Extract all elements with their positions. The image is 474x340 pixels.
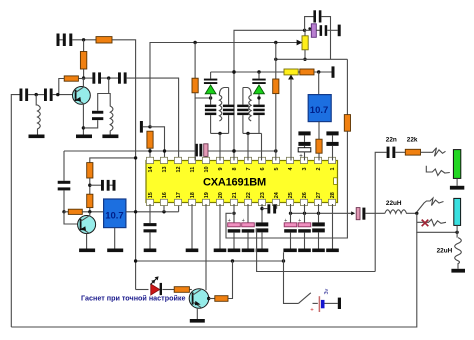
ground bbox=[242, 249, 255, 253]
wire osc top bbox=[150, 43, 301, 127]
capacitor C4 bbox=[84, 77, 93, 79]
terminal T5 bbox=[338, 298, 341, 309]
wire bbox=[72, 39, 96, 41]
ground bbox=[107, 249, 123, 253]
resistor R10 bbox=[344, 115, 350, 132]
svg-text:11: 11 bbox=[190, 167, 196, 173]
IC U1 notch bbox=[334, 178, 338, 185]
svg-text:+: + bbox=[299, 154, 303, 160]
ground bbox=[144, 249, 157, 253]
unit2 frame bbox=[243, 132, 262, 134]
inductor L6 bbox=[455, 238, 462, 269]
wire R5 column pin5 bbox=[275, 43, 277, 80]
varicap diode VD2 bbox=[254, 85, 265, 94]
transistor VT2 bbox=[64, 212, 78, 224]
ground bbox=[228, 249, 241, 253]
capacitor C27 bbox=[312, 222, 325, 226]
capacitor C5 bbox=[118, 72, 121, 83]
capacitor C1 bbox=[63, 34, 66, 47]
svg-text:22k: 22k bbox=[407, 137, 418, 144]
pin3 capacitor stack C17 bbox=[298, 131, 310, 135]
svg-text:27: 27 bbox=[316, 192, 322, 198]
resistor R7 bbox=[87, 194, 93, 207]
inductor L5 bbox=[385, 210, 417, 214]
capacitor C23 bbox=[256, 222, 269, 226]
capacitor C11 bbox=[204, 79, 217, 81]
resistor R13 bbox=[174, 287, 189, 293]
svg-text:15: 15 bbox=[148, 192, 154, 198]
wire pin11 bbox=[194, 98, 196, 161]
capacitor C8 with terminal bbox=[90, 184, 101, 186]
LED VD3 bbox=[136, 289, 149, 291]
wire audio out bbox=[375, 152, 386, 271]
resistor R14a pin14 bbox=[147, 131, 153, 148]
svg-text:5: 5 bbox=[274, 167, 280, 170]
svg-text:3: 3 bbox=[302, 167, 308, 170]
wire bbox=[112, 40, 136, 290]
rail 151 bbox=[64, 150, 195, 152]
svg-text:1: 1 bbox=[330, 167, 336, 170]
wire base bbox=[53, 94, 73, 96]
ground bbox=[29, 135, 45, 139]
pin27 wire bbox=[318, 204, 320, 222]
capacitor C20 bbox=[144, 223, 157, 226]
svg-text:CXA1691BM: CXA1691BM bbox=[203, 177, 266, 189]
resistor R5 bbox=[273, 79, 279, 94]
inductor L2 bbox=[109, 94, 113, 135]
3-plate capacitor C16 bbox=[237, 105, 248, 108]
ground bbox=[312, 249, 325, 253]
pin25 wire bbox=[290, 204, 292, 223]
pin15 wire bbox=[149, 204, 151, 223]
rail 261 bbox=[136, 260, 284, 262]
tuning pot RP1 bbox=[304, 30, 306, 36]
resistor R6 bbox=[87, 163, 93, 178]
filter line bbox=[291, 212, 353, 214]
node bbox=[193, 41, 196, 44]
wire pin13 jog bbox=[150, 127, 165, 161]
ground bbox=[190, 319, 205, 323]
resistor R4 bbox=[192, 78, 198, 93]
wire right vertical bbox=[346, 59, 348, 114]
IC U1 CXA1691BM body bbox=[146, 161, 338, 203]
wire bbox=[327, 29, 338, 31]
wire tank bbox=[98, 78, 109, 111]
resistor R1 bbox=[96, 37, 112, 43]
capacitor C6 bbox=[92, 111, 103, 114]
collector wire bbox=[89, 212, 91, 217]
svg-text:14: 14 bbox=[148, 165, 154, 172]
svg-text:28: 28 bbox=[330, 192, 336, 198]
10.7 filter block Z2 bbox=[308, 95, 331, 122]
wire bbox=[60, 39, 63, 41]
wire antenna 2 bbox=[11, 95, 19, 327]
IC U1 top pin tabs bbox=[146, 157, 335, 163]
inductor L3 bbox=[219, 88, 228, 122]
trimmer CT1 bbox=[311, 24, 316, 38]
IC U1 top pin numbers bbox=[148, 165, 336, 172]
capacitor C7 bbox=[58, 181, 71, 184]
svg-text:23: 23 bbox=[260, 192, 266, 198]
terminal T4 bbox=[338, 25, 341, 37]
arrow mark bbox=[351, 211, 355, 215]
IC U1 bottom pin numbers bbox=[148, 191, 336, 198]
pin22 wire bbox=[247, 204, 249, 223]
ground bbox=[283, 249, 296, 253]
wire R4 column bbox=[194, 43, 196, 79]
jack X2 plug (green) bbox=[453, 150, 460, 179]
terminal T3 bbox=[332, 66, 335, 77]
pin1 capacitor stack C18 bbox=[326, 131, 338, 135]
LED arrows bbox=[151, 278, 157, 284]
resistor R14 bbox=[209, 298, 215, 300]
capacitor C24 bbox=[262, 208, 267, 210]
IF transformer unit1 rail bbox=[210, 72, 212, 79]
svg-text:2: 2 bbox=[316, 167, 322, 170]
wire bbox=[101, 77, 118, 79]
wire bbox=[321, 17, 330, 60]
3-plate capacitor C13 bbox=[223, 105, 234, 108]
jack X3 lower contact bbox=[417, 219, 446, 226]
node C1 bbox=[415, 212, 418, 215]
arrowhead wiper pin4 bbox=[288, 75, 294, 80]
emitter wire bbox=[86, 234, 88, 249]
node A4 bbox=[56, 93, 59, 96]
pot RP2 bbox=[284, 69, 298, 75]
ground bbox=[451, 269, 465, 273]
wire bbox=[83, 120, 97, 128]
emitter wire bbox=[196, 308, 198, 319]
switch SA1 bbox=[298, 293, 310, 304]
svg-text:3v: 3v bbox=[324, 288, 330, 294]
10.7 filter block Z1 bbox=[104, 199, 126, 228]
node B1 bbox=[62, 210, 65, 213]
svg-text:22uH: 22uH bbox=[437, 247, 453, 254]
node A5 bbox=[82, 126, 85, 129]
node bbox=[207, 297, 210, 300]
svg-text:Гаснет при точной настройке: Гаснет при точной настройке bbox=[81, 293, 186, 302]
rail 212 bbox=[64, 211, 68, 213]
svg-text:22uH: 22uH bbox=[386, 200, 402, 207]
bottom rail bbox=[11, 232, 417, 327]
pin20 wire bbox=[219, 204, 221, 249]
jack X3 top contact bbox=[417, 198, 444, 212]
wire pin16 bbox=[163, 204, 165, 212]
pin24 wire bbox=[276, 204, 278, 209]
rail 59 bbox=[276, 58, 348, 60]
pin23 wire bbox=[261, 204, 263, 222]
pin18 wire bbox=[191, 204, 193, 249]
transistor VT1 bbox=[73, 87, 91, 105]
battery GB1 bbox=[318, 296, 320, 312]
svg-text:6: 6 bbox=[260, 167, 266, 170]
node osc bbox=[148, 125, 151, 128]
antenna terminal X1 bbox=[57, 34, 60, 47]
3-plate capacitor C12 bbox=[205, 105, 216, 108]
svg-text:25: 25 bbox=[288, 192, 294, 198]
svg-text:10.7: 10.7 bbox=[310, 105, 329, 116]
svg-text:24: 24 bbox=[274, 191, 280, 198]
svg-text:13: 13 bbox=[162, 166, 168, 172]
cross mark X bbox=[422, 220, 429, 227]
wire return bbox=[417, 213, 457, 232]
wire bbox=[28, 94, 44, 96]
svg-text:22: 22 bbox=[246, 192, 252, 198]
ground bar bbox=[450, 186, 464, 190]
wire to 10.7 block bbox=[318, 72, 320, 95]
resistor R3 bbox=[64, 76, 78, 81]
IF transformer unit2 rail bbox=[258, 72, 260, 79]
wire osc tank frame bbox=[305, 17, 314, 31]
collector wire bbox=[82, 78, 84, 87]
rail 151 right bbox=[208, 150, 276, 152]
ground bbox=[186, 249, 199, 253]
wire bbox=[316, 29, 319, 31]
capacitor C9 bbox=[313, 10, 316, 22]
pin28 wire bbox=[332, 204, 334, 249]
resistor R11 bbox=[300, 69, 314, 75]
resistor R2 bbox=[83, 40, 85, 52]
base wire bbox=[189, 289, 191, 291]
ground bbox=[102, 135, 118, 139]
inductor L4 bbox=[243, 88, 251, 122]
jack X2 lower contact bbox=[426, 166, 450, 176]
node B2 bbox=[88, 184, 91, 187]
ceramic filter ZQ1 bbox=[195, 144, 198, 157]
svg-text:9: 9 bbox=[218, 167, 224, 170]
wire left cap col bbox=[63, 151, 65, 181]
svg-text:10: 10 bbox=[204, 166, 210, 172]
emitter wire bbox=[82, 104, 84, 135]
svg-text:7: 7 bbox=[246, 167, 252, 170]
node A6 bbox=[107, 76, 110, 79]
varicap diode VD1 bbox=[205, 85, 216, 94]
IC U1 bottom pin tabs bbox=[146, 199, 335, 205]
wire osc row bbox=[305, 29, 312, 31]
wire to pin12 bbox=[127, 78, 179, 160]
transistor VT3 bbox=[189, 289, 209, 309]
svg-text:17: 17 bbox=[176, 192, 182, 198]
svg-text:18: 18 bbox=[190, 192, 196, 198]
terminal T2 bbox=[140, 121, 143, 133]
jack X3 plug (cyan) bbox=[454, 198, 461, 225]
wire bbox=[162, 289, 174, 291]
resistor R12 22k bbox=[405, 149, 420, 155]
battery branch wire bbox=[284, 252, 299, 303]
svg-text:8: 8 bbox=[232, 167, 238, 170]
ground bbox=[76, 135, 92, 139]
capacitor C3 bbox=[44, 89, 47, 102]
ground bbox=[256, 249, 269, 253]
svg-text:21: 21 bbox=[232, 192, 238, 198]
ground bbox=[298, 249, 311, 253]
inductor L1 bbox=[36, 95, 40, 135]
wire top osc bbox=[234, 30, 305, 160]
svg-text:+: + bbox=[310, 308, 314, 314]
wire loop 272 bbox=[257, 229, 376, 272]
svg-text:22n: 22n bbox=[386, 137, 397, 144]
capacitor C19 22n bbox=[387, 147, 390, 158]
svg-text:26: 26 bbox=[302, 192, 308, 198]
pin26 wire bbox=[304, 204, 306, 223]
AGC rail bbox=[211, 71, 284, 73]
svg-text:19: 19 bbox=[204, 192, 210, 198]
svg-text:20: 20 bbox=[218, 192, 224, 198]
capacitor C10 bbox=[320, 25, 323, 36]
wire pin17 up bbox=[178, 204, 180, 212]
svg-text:16: 16 bbox=[162, 192, 168, 198]
wire Z1 to ground bbox=[114, 228, 116, 249]
jack contact spring bbox=[429, 148, 446, 157]
wire stub 157.9 bbox=[90, 158, 136, 163]
ceramic filter ZQ2 bbox=[356, 208, 360, 220]
3-plate capacitor C15 bbox=[253, 105, 264, 108]
ground bbox=[326, 249, 339, 253]
capacitor C14 bbox=[252, 79, 265, 81]
node A1 bbox=[82, 38, 85, 41]
arrowhead into pot bbox=[297, 40, 303, 46]
pin19 wire bbox=[205, 204, 207, 290]
ground bbox=[214, 249, 227, 253]
resistor R9 bbox=[316, 139, 322, 153]
node A3 bbox=[35, 93, 38, 96]
svg-text:10.7: 10.7 bbox=[105, 211, 124, 222]
resistor R8 bbox=[68, 209, 82, 214]
capacitor C2 bbox=[20, 89, 23, 102]
unit1 frame bbox=[211, 132, 229, 134]
ground bbox=[79, 249, 95, 253]
node A2 collector bbox=[82, 76, 85, 79]
svg-text:12: 12 bbox=[176, 166, 182, 172]
pin21 wire bbox=[233, 204, 235, 223]
